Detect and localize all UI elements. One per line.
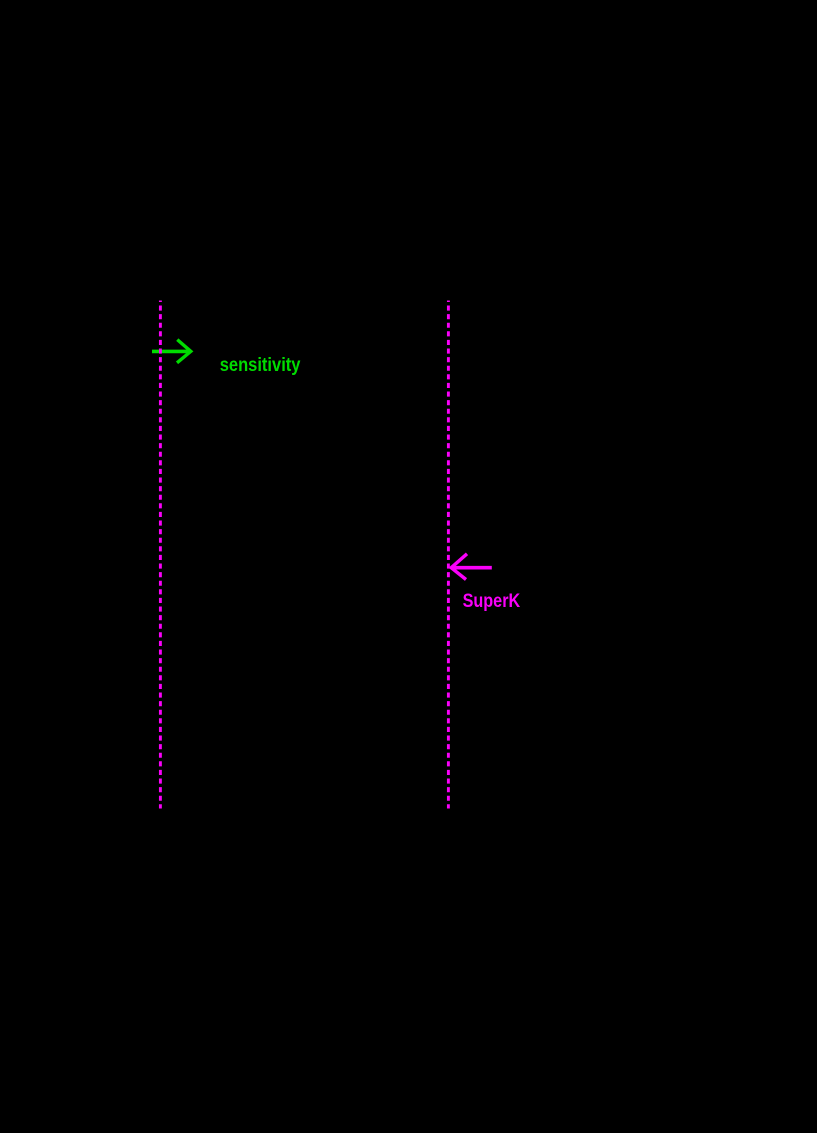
right magenta dashed limit line (SuperK) [447,301,450,809]
green sensitivity arrow (points right) [152,340,191,363]
left magenta dashed limit line [159,301,162,809]
svg-text:SuperK: SuperK [463,591,521,612]
svg-text:sensitivity: sensitivity [220,354,301,376]
magenta SuperK arrow (points left) [451,554,492,580]
